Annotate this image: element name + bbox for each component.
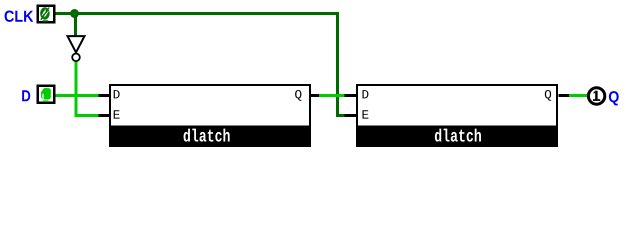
U1 pin label D [114,90,120,98]
U2 module name dlatch [435,129,481,142]
label D [22,90,30,101]
probe value digit 1 [593,91,600,101]
U1 module name dlatch [184,129,230,142]
wire CLK net right vertical drop to E of U2 [336,12,339,117]
wire inverter output net vertical (logic 1, bright green) [75,61,78,117]
pin stub Q of U2 [559,94,570,97]
wire Q of U2 to output probe [569,94,588,97]
input switch CLK box [38,6,55,23]
U2 pin label Q [545,90,551,101]
U1 pin label E [114,110,120,118]
CLK value digit 0 [40,7,50,22]
U2 pin label D [362,90,368,98]
U2 pin label E [362,110,368,118]
wire Q of U1 to D of U2 [319,94,345,97]
pin stub D of U2 [345,94,357,97]
U1 pin label Q [295,90,301,101]
wire inverter output net horizontal to E stub of U1 [75,114,99,117]
wire D input net [55,94,99,97]
pin stub E of U1 [99,114,110,117]
wire CLK net horizontal into E stub of U2 [336,114,345,117]
label Q [609,91,619,105]
D value digit 1 [41,88,51,102]
input switch D box [38,86,55,103]
pin stub D of U1 [99,94,110,97]
label CLK [5,11,34,22]
wire CLK net horizontal (logic 0, dark green) [55,12,339,15]
wire CLK net vertical into inverter [74,13,77,36]
pin stub Q of U1 [311,94,319,97]
node junction on CLK net [70,9,79,18]
output probe circle [588,88,604,104]
dlatch U2 body [356,85,558,147]
dlatch U1 body [109,85,311,147]
pin stub E of U2 [345,114,357,117]
inverter (NOT gate) on clock [68,36,85,61]
